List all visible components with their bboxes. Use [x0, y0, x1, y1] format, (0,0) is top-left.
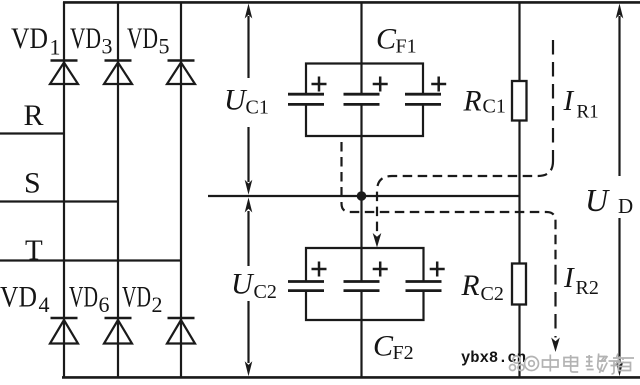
label VD5: [127, 22, 170, 59]
diode VD1: [50, 61, 78, 85]
label VD6: [69, 281, 110, 318]
svg-text:3: 3: [102, 34, 113, 59]
svg-text:C1: C1: [483, 96, 506, 118]
wire: bottom DC- bus: [62, 376, 640, 379]
dimension arrow UD: [616, 4, 624, 377]
label UC2: [231, 268, 277, 304]
resistor RC1: [512, 81, 527, 121]
wire: resistor rail: [518, 2, 520, 377]
svg-text:U: U: [231, 268, 255, 301]
svg-text:VD: VD: [70, 22, 101, 55]
wire: VD1/VD4 bridge leg rail: [63, 2, 65, 377]
svg-text:C: C: [376, 23, 397, 56]
label VD4: [0, 281, 50, 318]
capacitor CF2 left unit: [288, 262, 327, 291]
label VD3: [70, 22, 113, 59]
label IR1: [563, 85, 599, 123]
resistor RC2: [512, 264, 526, 305]
label RC1: [463, 86, 506, 118]
svg-text:R: R: [461, 270, 480, 302]
svg-text:F2: F2: [393, 342, 414, 364]
svg-text:ybx8.cn: ybx8.cn: [461, 349, 526, 367]
svg-text:VD: VD: [0, 281, 37, 314]
diode VD3: [104, 61, 132, 85]
svg-text:S: S: [24, 167, 41, 200]
capacitor CF1 left unit: [288, 77, 327, 105]
svg-text:6: 6: [99, 292, 110, 317]
label UC1: [224, 84, 269, 119]
wire: capacitor midpoint line: [208, 195, 520, 197]
node: midpoint junction dot: [357, 191, 367, 201]
svg-text:C1: C1: [246, 97, 269, 119]
svg-text:1: 1: [50, 35, 61, 60]
svg-text:T: T: [25, 235, 43, 267]
svg-text:R2: R2: [576, 277, 599, 299]
label UD: [585, 182, 633, 218]
svg-text:VD: VD: [69, 281, 98, 314]
watermark logo icon: [510, 356, 525, 371]
svg-text:R: R: [24, 99, 44, 132]
svg-text:2: 2: [152, 292, 163, 317]
capacitor bank CF2 frame: [306, 248, 424, 320]
label VD1: [11, 22, 61, 60]
wire: top DC+ bus: [63, 1, 640, 4]
svg-text:I: I: [563, 85, 575, 117]
diode VD4: [50, 318, 78, 344]
wire: phase R input line: [0, 132, 65, 134]
svg-text:U: U: [585, 182, 610, 218]
svg-text:R: R: [463, 86, 482, 118]
wire: VD3/VD6 bridge leg rail: [117, 2, 119, 377]
diode VD5: [167, 61, 195, 85]
label CF1: [376, 23, 417, 58]
label RC2: [461, 270, 504, 305]
svg-text:VD: VD: [122, 281, 151, 314]
diode VD6: [104, 318, 132, 344]
watermark @zhongdian text: [525, 354, 635, 375]
label IR2: [563, 262, 599, 299]
svg-text:U: U: [224, 84, 248, 117]
wire: phase S input line: [0, 200, 119, 202]
wire: capacitor center rail: [360, 2, 362, 377]
current path IR1 (dashed, from resistor rail top into CF2): [373, 40, 553, 248]
wire: VD5/VD2 bridge leg rail: [180, 2, 182, 377]
current path IR2 (dashed, from CF1 bottom to bottom bus): [342, 142, 560, 352]
svg-text:F1: F1: [396, 36, 417, 58]
capacitor CF1 right unit: [405, 77, 446, 105]
label VD2: [122, 281, 163, 318]
svg-text:VD: VD: [127, 22, 158, 55]
label CF2: [373, 330, 414, 365]
svg-text:4: 4: [39, 292, 50, 317]
svg-text:5: 5: [159, 34, 170, 59]
capacitor bank CF1 frame: [306, 64, 423, 137]
dimension arrow UC2: [245, 198, 253, 377]
svg-text:C2: C2: [254, 281, 277, 303]
svg-text:D: D: [618, 194, 633, 218]
svg-text:R1: R1: [577, 102, 599, 123]
capacitor CF2 right unit: [406, 262, 445, 291]
svg-text:C2: C2: [481, 283, 504, 305]
diode VD2: [167, 318, 195, 344]
capacitor CF2 middle unit: [344, 262, 388, 291]
wire: phase T input line: [0, 259, 182, 261]
capacitor CF1 middle unit: [344, 77, 388, 105]
svg-text:VD: VD: [11, 22, 48, 55]
svg-text:I: I: [563, 262, 575, 294]
svg-text:C: C: [373, 330, 394, 363]
dimension arrow UC1: [245, 4, 253, 195]
